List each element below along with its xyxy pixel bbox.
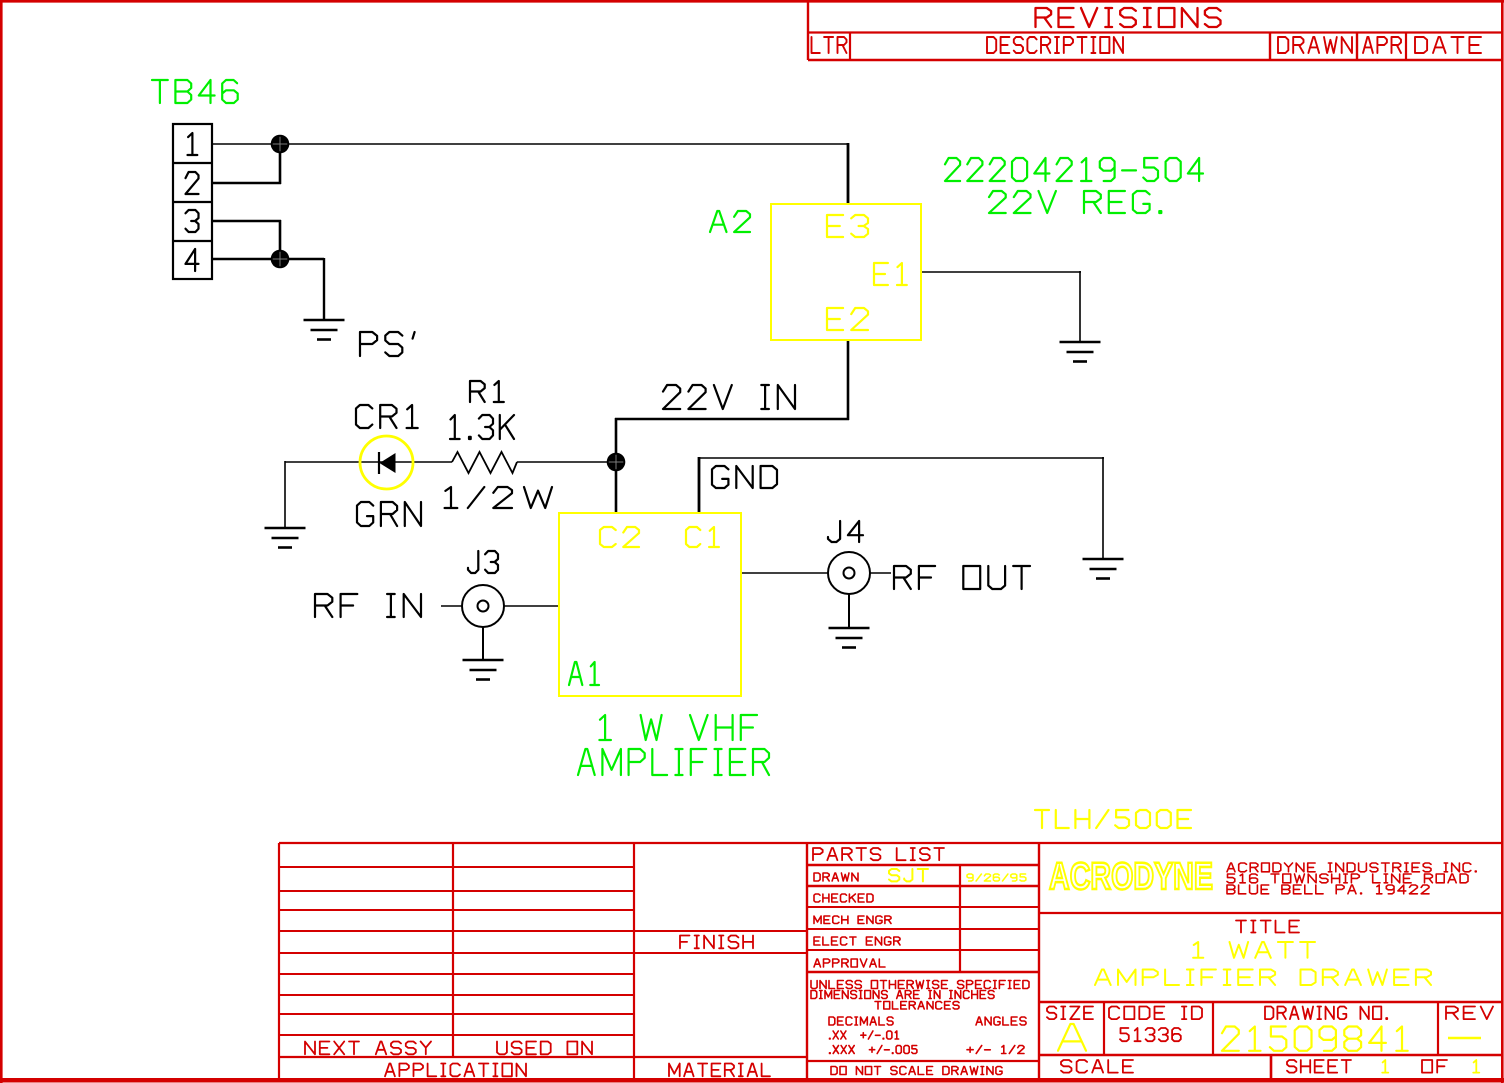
svg-text:ACRODYNE: ACRODYNE bbox=[1049, 856, 1213, 898]
